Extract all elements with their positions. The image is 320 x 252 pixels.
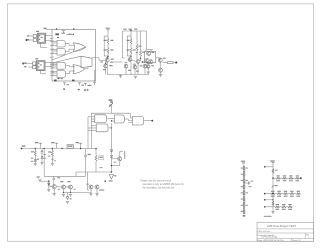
ladder branch cap: [244, 181, 253, 188]
gate G6 (OR): [73, 65, 85, 74]
node OUT: [175, 62, 177, 64]
ground R3: [48, 156, 54, 166]
wire center tail: [66, 193, 71, 200]
ground A: [119, 75, 122, 78]
designer text: [257, 234, 277, 239]
wire q5 c: [120, 151, 123, 156]
wire B v2: [130, 31, 132, 38]
resistor row R30-R33: [264, 204, 292, 210]
gates box wires: [88, 113, 132, 148]
resistor RN1: [272, 201, 274, 206]
transistor Q16: [133, 65, 137, 69]
node V3: [43, 148, 45, 150]
capacitor C1: [34, 157, 39, 164]
label rr bottom: [264, 216, 272, 217]
ground tail: [66, 202, 69, 204]
wire B v5: [146, 31, 148, 49]
node A: [107, 56, 109, 58]
net flag mid: [272, 178, 278, 193]
wire m3-m4: [125, 119, 133, 123]
wire c2 v: [85, 149, 87, 153]
node dots bottom: [57, 78, 63, 80]
wire q6 e: [89, 189, 92, 196]
transistor Q23: [146, 65, 153, 74]
node out L: [142, 61, 145, 63]
svg-text:FILE: lm5.sch: FILE: lm5.sch: [258, 231, 272, 233]
wire mid out: [144, 120, 152, 122]
coupler quad: [81, 56, 92, 67]
wire A 2: [107, 54, 109, 58]
flag top c: [55, 31, 74, 36]
svg-text:operation is only an LM555 CN: operation is only an LM555 CN demo for: [143, 183, 184, 186]
gate M2 (AND): [88, 124, 108, 132]
ground Q1: [62, 194, 65, 196]
cross-coupling diag A: [52, 47, 85, 60]
wire net v: [111, 106, 113, 114]
wire A link: [110, 61, 123, 63]
wire g4-or2: [66, 71, 75, 74]
wire U2 out b: [45, 66, 52, 68]
input network U2A: [22, 62, 36, 69]
wire U2 out a: [45, 62, 52, 64]
wire m2 up: [109, 127, 112, 129]
svg-text:Sheet: 1/1: Sheet: 1/1: [292, 239, 301, 242]
wire v3 down: [43, 149, 45, 177]
capacitor C2: [84, 153, 91, 177]
cross-coupling diag B: [52, 56, 81, 63]
flag bot f: [87, 85, 92, 91]
transistor Q7: [95, 185, 104, 191]
file text: [258, 231, 272, 233]
wire q1q2 base: [56, 187, 75, 190]
wire outstage top: [146, 49, 153, 51]
latch block U3 outline: [52, 30, 96, 82]
flag VCC A: [106, 28, 110, 33]
wire B v2b: [130, 45, 132, 48]
transistor Q13: [128, 58, 132, 62]
wire q6 base: [88, 172, 90, 190]
flag V5: [76, 142, 83, 149]
resistor RN0: [272, 169, 277, 174]
note line 1: [140, 179, 171, 182]
flag top a: [56, 28, 58, 30]
wire g3-or2: [66, 66, 75, 67]
wire U2 fb: [41, 70, 47, 73]
ground Q3: [53, 189, 56, 196]
svg-text:Rev: Rev: [306, 234, 309, 236]
node RD1: [264, 166, 273, 168]
transistor Q1: [60, 181, 65, 189]
svg-text:LM5 Tone Project TEST: LM5 Tone Project TEST: [267, 224, 297, 228]
wire out gnd: [159, 72, 162, 76]
ground C1: [31, 158, 37, 166]
wire bottom rail: [44, 175, 85, 177]
node MIDOUT: [151, 120, 153, 122]
note line 2: [143, 183, 184, 186]
flag VCC R: [270, 160, 275, 165]
wire rr v2: [272, 193, 273, 207]
wire q out: [92, 57, 96, 59]
transistor Q12: [100, 61, 112, 70]
node r2: [61, 148, 81, 149]
wire B v1: [122, 31, 124, 58]
flag bot e: [84, 83, 90, 91]
flag bot b: [72, 80, 75, 82]
title block frame: [257, 222, 314, 241]
svg-text:Please note the internal circu: Please note the internal circuit: [140, 179, 171, 182]
flag arrow down: [109, 175, 116, 179]
comparator U1 box: [36, 31, 45, 43]
wire base A: [96, 58, 105, 60]
diode D1a: [41, 156, 43, 161]
resistor R17: [162, 62, 175, 64]
node nb: [111, 165, 113, 173]
outstage box: [144, 51, 155, 62]
capacitor C3: [53, 176, 61, 182]
wire B v4: [140, 31, 142, 50]
wire A mid: [107, 45, 109, 48]
gate M1 (AND): [88, 115, 107, 123]
flag top b: [73, 28, 75, 30]
title text: [267, 224, 297, 228]
wire B links: [123, 51, 141, 62]
diode D2: [110, 147, 112, 152]
node m: [111, 120, 112, 128]
transistor Q6: [86, 167, 102, 189]
node RD3: [264, 199, 274, 201]
wire U1 out b: [45, 40, 52, 42]
wire or2-quad: [85, 67, 88, 69]
resistor R12: [104, 48, 114, 54]
transistor Q19: [145, 58, 149, 62]
transistor Q5: [112, 151, 126, 163]
transistor Q2: [67, 181, 72, 189]
wire out v: [159, 62, 161, 68]
loop B: [127, 36, 131, 56]
svg-text:Date: 4/29/2018 10:54:21a: Date: 4/29/2018 10:54:21a: [257, 239, 284, 242]
resistor row R21-R24: [273, 175, 302, 181]
wire rr v1: [272, 165, 274, 178]
switch ladder SW1: [241, 161, 248, 217]
transistor Q15: [124, 64, 128, 68]
title divider 2: [257, 232, 314, 234]
node r3: [86, 148, 97, 150]
transistor Q17: [125, 62, 150, 71]
resistor row R25-R29: [264, 191, 301, 197]
node b1: [48, 180, 50, 185]
wire out h: [156, 57, 161, 59]
resistor R16: [140, 50, 145, 56]
node dot q: [57, 37, 58, 38]
wire q5 e: [112, 161, 120, 166]
flag bot a: [54, 80, 57, 82]
svg-text:the simulation, not the final: the simulation, not the final one.: [143, 186, 176, 189]
ground mid: [134, 76, 137, 78]
transistor Q20: [149, 60, 153, 64]
resistor R13: [127, 38, 132, 44]
flag bot g: [93, 83, 96, 86]
resistor R1: [31, 148, 36, 157]
wire in rail: [22, 148, 86, 150]
title divider 1: [257, 228, 314, 230]
wire bottom link: [76, 172, 112, 176]
wire q7 e: [95, 189, 98, 196]
note line 3: [143, 186, 176, 189]
ground C2a: [40, 154, 46, 164]
resistor R5: [95, 149, 97, 173]
gate G1 (AND): [52, 40, 65, 47]
flag bot c: [63, 83, 69, 90]
wire B emitters: [126, 62, 145, 75]
wire u3 right drop: [94, 70, 96, 82]
wire g2-or: [65, 49, 75, 51]
transistor Q21: [158, 58, 165, 63]
resistor R11: [104, 38, 114, 44]
flag VCC B: [130, 29, 132, 31]
transistor Q3: [49, 182, 56, 188]
wire B v3: [136, 31, 138, 44]
flag bot d: [78, 83, 84, 91]
capacitor C2a: [41, 149, 44, 157]
diode D3: [110, 152, 112, 172]
wire AB ground rail: [107, 74, 149, 76]
resistor R14: [127, 48, 136, 54]
wire q2 e: [70, 189, 71, 193]
wire B rail: [123, 29, 147, 31]
gate M4 (AND): [132, 116, 143, 125]
wire U1 out a: [36, 36, 52, 41]
wire vneg link: [44, 180, 49, 182]
input network U1A: [26, 34, 37, 41]
gate G4 (AND): [52, 71, 66, 78]
gate G5 (OR): [73, 43, 85, 52]
diode D4: [48, 181, 50, 189]
wire B-out link: [141, 61, 144, 63]
node B1: [130, 52, 141, 60]
ground rr: [271, 207, 274, 214]
transistor Q11: [105, 57, 114, 63]
wire net v2: [111, 123, 113, 147]
title divider 3: [257, 237, 314, 239]
flag V2: [35, 142, 42, 149]
gate M3: [107, 115, 124, 123]
wire r5 tail: [95, 171, 97, 173]
wire U1 fb: [41, 43, 48, 47]
marks R3b: [51, 157, 56, 163]
node RD2: [272, 177, 274, 179]
U3 pin stubs left: [50, 38, 54, 76]
comparator U2 box: [35, 58, 45, 70]
ground D4: [47, 189, 50, 191]
wire g1-or: [65, 44, 75, 46]
label box D1: [67, 145, 73, 149]
label above U1: [44, 28, 53, 30]
wire A down: [106, 62, 108, 74]
net label CTRL: [109, 99, 113, 107]
gate G2 (AND): [52, 48, 65, 55]
resistor R15: [136, 44, 141, 50]
wire A top: [107, 32, 109, 38]
date text: [257, 238, 301, 242]
transistor Q22: [159, 68, 163, 72]
rev cell: [306, 233, 310, 239]
svg-text:Designed by: Aandek: Designed by: Aandek: [257, 234, 274, 237]
wire q1 e: [63, 189, 64, 193]
transistor Q14: [136, 60, 140, 64]
gate G3 (AND): [52, 62, 66, 69]
transistor Q18: [147, 51, 155, 55]
value label R5: [99, 156, 104, 160]
ground Q2: [69, 194, 72, 196]
wire mirror link: [64, 192, 92, 194]
loop A: [104, 36, 108, 56]
node IN dot: [21, 145, 26, 149]
flag Vneg: [37, 176, 45, 181]
flag V4: [51, 142, 58, 149]
node speck: [104, 180, 112, 182]
resistor R3: [48, 148, 53, 157]
